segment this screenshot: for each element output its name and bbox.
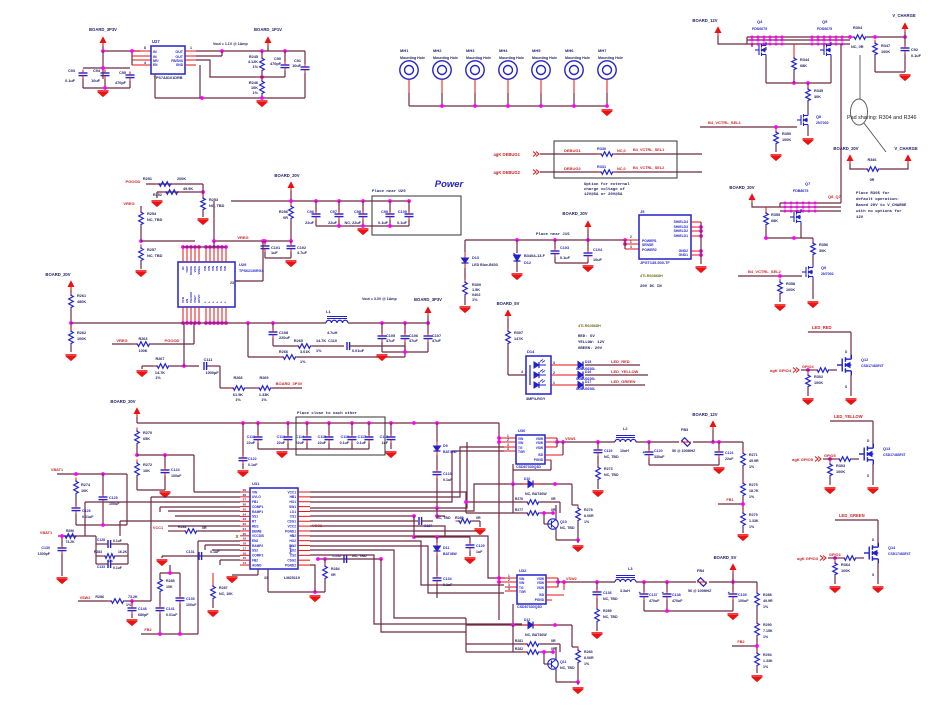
svg-text:4.7uF: 4.7uF	[297, 251, 308, 255]
svg-text:BOARD_5V: BOARD_5V	[714, 555, 737, 560]
svg-text:TPS62130RGX: TPS62130RGX	[239, 269, 264, 273]
svg-text:RAMP1: RAMP1	[252, 510, 263, 514]
svg-text:VSW1: VSW1	[565, 437, 576, 441]
svg-text:2: 2	[507, 438, 509, 442]
svg-text:26: 26	[243, 503, 247, 507]
svg-text:VIN: VIN	[518, 441, 524, 445]
svg-text:PGOOD: PGOOD	[165, 338, 180, 343]
svg-text:2N7002: 2N7002	[821, 272, 834, 276]
svg-text:VBAT1: VBAT1	[51, 468, 63, 472]
svg-text:0R: 0R	[331, 573, 336, 577]
svg-text:FB3: FB3	[681, 428, 688, 432]
svg-text:1%: 1%	[749, 525, 755, 529]
svg-text:10K: 10K	[81, 489, 88, 493]
svg-text:BAT46W: BAT46W	[443, 552, 457, 556]
svg-text:C103: C103	[560, 246, 569, 250]
svg-text:14: 14	[243, 561, 247, 565]
svg-text:480K: 480K	[77, 300, 86, 304]
svg-text:BOARD_3P3V: BOARD_3P3V	[89, 27, 117, 32]
svg-text:PGND: PGND	[534, 458, 544, 462]
svg-text:VREG: VREG	[197, 265, 201, 274]
svg-text:VSW: VSW	[537, 581, 544, 585]
svg-text:Q4: Q4	[757, 19, 763, 24]
svg-text:FB4: FB4	[697, 569, 705, 573]
svg-text:1uF: 1uF	[476, 550, 483, 554]
svg-text:4.12K: 4.12K	[248, 60, 258, 64]
svg-text:R246: R246	[249, 81, 258, 85]
svg-text:ROVP: ROVP	[197, 294, 201, 303]
svg-text:DEBUG2: DEBUG2	[564, 166, 581, 171]
svg-text:MH5: MH5	[532, 48, 541, 53]
svg-text:4: 4	[521, 370, 523, 374]
svg-text:12V: 12V	[856, 216, 864, 220]
svg-text:1%: 1%	[749, 465, 755, 469]
svg-text:C131: C131	[186, 550, 195, 554]
svg-text:NC, TBD: NC, TBD	[147, 218, 163, 222]
svg-text:BOARD_3P3V: BOARD_3P3V	[276, 381, 303, 386]
svg-text:470pF: 470pF	[115, 81, 127, 85]
svg-text:R261: R261	[77, 294, 86, 298]
svg-text:1%: 1%	[253, 91, 259, 95]
svg-text:C130: C130	[41, 546, 50, 550]
svg-text:1300pF: 1300pF	[38, 552, 51, 556]
svg-text:25: 25	[243, 507, 247, 511]
svg-text:0.1uF: 0.1uF	[340, 441, 350, 445]
svg-text:R286: R286	[95, 595, 104, 599]
svg-text:LED_GREEN: LED_GREEN	[839, 513, 865, 518]
svg-text:Q10: Q10	[560, 520, 567, 524]
svg-text:PGND: PGND	[535, 598, 545, 602]
svg-text:R279: R279	[749, 513, 758, 517]
svg-text:1: 1	[630, 240, 632, 244]
svg-text:C134: C134	[443, 577, 452, 581]
svg-text:RED: 5V: RED: 5V	[578, 335, 595, 339]
svg-text:BOARD_20V: BOARD_20V	[833, 146, 858, 151]
svg-text:IN: IN	[153, 50, 157, 54]
svg-text:Based 20V to V_CHARGE: Based 20V to V_CHARGE	[856, 203, 907, 208]
svg-text:R273: R273	[604, 467, 613, 471]
svg-text:1000pF: 1000pF	[205, 371, 219, 375]
svg-text:VCC2: VCC2	[312, 524, 322, 528]
svg-text:100K: 100K	[782, 138, 791, 142]
svg-text:C119: C119	[604, 449, 612, 453]
svg-text:R254: R254	[147, 212, 157, 216]
svg-text:BD: BD	[539, 593, 544, 597]
svg-text:1%: 1%	[763, 605, 769, 609]
svg-text:C117: C117	[358, 435, 366, 439]
svg-text:agK DEBUG2: agK DEBUG2	[493, 170, 520, 175]
svg-text:D14: D14	[527, 349, 535, 354]
svg-text:Option for external: Option for external	[584, 182, 630, 187]
svg-text:Q7: Q7	[805, 181, 811, 186]
svg-text:Q12: Q12	[861, 358, 868, 362]
svg-text:65K: 65K	[143, 437, 150, 441]
svg-text:VCC2: VCC2	[287, 524, 296, 528]
svg-text:Mounting Hole: Mounting Hole	[532, 56, 557, 60]
svg-text:0R: 0R	[202, 526, 207, 530]
svg-text:FB2: FB2	[737, 640, 744, 644]
svg-text:R262: R262	[77, 331, 86, 335]
svg-text:220uF: 220uF	[279, 336, 291, 340]
svg-text:47uF: 47uF	[386, 339, 396, 343]
svg-text:NC, BAT46W: NC, BAT46W	[525, 492, 547, 496]
svg-text:1%: 1%	[261, 398, 267, 402]
svg-text:R256: R256	[279, 210, 288, 214]
svg-text:VSW: VSW	[536, 446, 543, 450]
svg-text:1.33K: 1.33K	[763, 659, 773, 663]
svg-text:CDBU0230L: CDBU0230L	[576, 387, 595, 391]
svg-text:R307: R307	[514, 331, 523, 335]
svg-text:R257: R257	[147, 248, 156, 252]
svg-text:FB2: FB2	[144, 628, 151, 632]
svg-text:YELLOW: 12V: YELLOW: 12V	[578, 341, 605, 345]
svg-text:R345: R345	[814, 89, 823, 93]
svg-text:24: 24	[243, 512, 247, 516]
svg-text:C126: C126	[82, 509, 91, 513]
svg-text:C120: C120	[654, 449, 663, 453]
svg-text:C101: C101	[271, 246, 280, 250]
svg-text:NC,0: NC,0	[617, 149, 626, 153]
svg-text:CS1: CS1	[290, 515, 296, 519]
svg-text:C141: C141	[166, 607, 175, 611]
svg-text:D15: D15	[585, 360, 591, 364]
svg-text:LED_RED: LED_RED	[611, 359, 630, 364]
svg-text:Mounting Hole: Mounting Hole	[598, 56, 623, 60]
svg-text:200K: 200K	[177, 177, 186, 181]
svg-text:VREG: VREG	[237, 235, 248, 240]
svg-text:10K: 10K	[251, 86, 258, 90]
svg-text:LED_GREEN: LED_GREEN	[611, 379, 636, 384]
svg-text:1%: 1%	[126, 603, 132, 607]
svg-text:47uF: 47uF	[409, 339, 419, 343]
svg-text:147K: 147K	[514, 337, 523, 341]
svg-text:C121: C121	[725, 451, 734, 455]
svg-text:C107: C107	[432, 334, 441, 338]
svg-text:VIN: VIN	[223, 266, 227, 271]
svg-text:10uF: 10uF	[292, 64, 302, 68]
svg-text:NC, TBD: NC, TBD	[604, 473, 619, 477]
svg-text:0.1uF: 0.1uF	[113, 566, 122, 570]
svg-text:R300: R300	[472, 283, 481, 287]
svg-text:3: 3	[553, 361, 555, 365]
svg-text:JPGT135-500-TF: JPGT135-500-TF	[640, 261, 670, 265]
svg-text:agK GPIO5: agK GPIO5	[792, 457, 814, 462]
svg-text:R356: R356	[819, 243, 828, 247]
svg-text:agK GPIO3: agK GPIO3	[797, 556, 819, 561]
svg-text:HB2: HB2	[290, 534, 297, 538]
svg-text:J5: J5	[640, 209, 645, 214]
svg-text:C96: C96	[307, 210, 314, 214]
svg-text:BOARD_5V: BOARD_5V	[497, 301, 520, 306]
svg-text:C92: C92	[911, 48, 918, 52]
svg-text:49.9R: 49.9R	[763, 599, 773, 603]
svg-text:U32: U32	[519, 568, 527, 573]
svg-text:1%: 1%	[235, 398, 241, 402]
svg-text:PGOOD: PGOOD	[126, 179, 141, 184]
svg-text:PwPd: PwPd	[289, 545, 293, 554]
svg-text:S: S	[867, 474, 869, 478]
svg-text:20V DC IN: 20V DC IN	[640, 285, 662, 289]
svg-text:TGR: TGR	[519, 590, 526, 594]
svg-text:10K: 10K	[166, 585, 173, 589]
svg-text:0.1uF: 0.1uF	[560, 256, 571, 260]
svg-text:NC, BAT46W: NC, BAT46W	[525, 633, 547, 637]
svg-text:100K: 100K	[77, 337, 86, 341]
svg-text:D17: D17	[585, 380, 591, 384]
svg-text:R364: R364	[841, 563, 851, 567]
svg-text:22: 22	[243, 522, 247, 526]
svg-text:1uF: 1uF	[271, 251, 278, 255]
svg-text:VSW: VSW	[536, 441, 543, 445]
svg-text:C106: C106	[409, 334, 418, 338]
svg-text:Power: Power	[435, 179, 465, 190]
svg-text:HB1: HB1	[290, 495, 297, 499]
svg-text:VREG: VREG	[123, 201, 134, 206]
svg-text:1: 1	[190, 46, 192, 50]
svg-text:17: 17	[243, 546, 247, 550]
svg-text:20: 20	[243, 532, 247, 536]
svg-text:Mounting Hole: Mounting Hole	[565, 56, 590, 60]
svg-text:1.33K: 1.33K	[749, 519, 759, 523]
svg-text:CSG1: CSG1	[287, 520, 296, 524]
svg-text:VCC1: VCC1	[287, 490, 296, 494]
svg-text:56 @ 100MHZ: 56 @ 100MHZ	[672, 449, 696, 453]
svg-text:C90: C90	[274, 57, 281, 61]
svg-text:R281: R281	[515, 639, 523, 643]
svg-text:NC, TBD: NC, TBD	[603, 597, 618, 601]
svg-text:73.2K: 73.2K	[128, 595, 138, 599]
svg-text:COMP1: COMP1	[252, 505, 264, 509]
svg-text:L: L	[223, 301, 227, 303]
svg-text:BAT46W: BAT46W	[443, 450, 457, 454]
svg-text:SHIELD1: SHIELD1	[674, 234, 688, 238]
svg-text:C132: C132	[332, 554, 341, 558]
svg-text:C136: C136	[603, 591, 612, 595]
svg-text:R344: R344	[800, 58, 810, 62]
svg-text:1: 1	[553, 381, 555, 385]
svg-text:GREEN: 20V: GREEN: 20V	[578, 347, 603, 351]
svg-text:Q13: Q13	[883, 447, 890, 451]
svg-text:0.1uF: 0.1uF	[248, 463, 258, 467]
svg-text:CSD17483F4T: CSD17483F4T	[888, 552, 912, 556]
svg-text:AGND: AGND	[252, 563, 262, 567]
svg-text:21: 21	[243, 527, 247, 531]
svg-text:Place R305 for: Place R305 for	[856, 191, 890, 196]
svg-text:NC, TBD: NC, TBD	[604, 455, 619, 459]
svg-text:68K: 68K	[800, 64, 807, 68]
svg-text:C123: C123	[443, 472, 452, 476]
svg-text:100K: 100K	[841, 569, 850, 573]
svg-text:4: 4	[144, 61, 146, 65]
svg-text:UVLO: UVLO	[252, 495, 261, 499]
svg-text:3.3uH: 3.3uH	[620, 589, 630, 593]
svg-text:4: 4	[508, 587, 510, 591]
svg-text:U30: U30	[518, 428, 526, 433]
svg-text:C104: C104	[593, 248, 603, 252]
svg-text:23: 23	[230, 281, 234, 285]
svg-text:C114: C114	[296, 435, 304, 439]
svg-text:2: 2	[508, 578, 510, 582]
svg-text:NC, 10K: NC, 10K	[219, 592, 233, 596]
svg-text:16: 16	[243, 551, 247, 555]
svg-text:R358: R358	[786, 282, 795, 286]
svg-text:100uF: 100uF	[738, 599, 749, 603]
svg-text:C128: C128	[97, 538, 105, 542]
svg-text:Mounting Hole: Mounting Hole	[466, 56, 491, 60]
svg-text:0R: 0R	[283, 216, 288, 220]
svg-text:SS1: SS1	[252, 515, 258, 519]
svg-text:R294: R294	[763, 653, 772, 657]
svg-text:SHIELD4: SHIELD4	[674, 220, 688, 224]
svg-text:NC, TBD: NC, TBD	[560, 666, 575, 670]
svg-text:1%: 1%	[316, 349, 322, 353]
svg-text:100K: 100K	[814, 381, 823, 385]
svg-text:470uF: 470uF	[672, 599, 683, 603]
svg-text:B4_VCTRL_SEL1: B4_VCTRL_SEL1	[633, 148, 664, 152]
svg-text:Place near U29: Place near U29	[372, 189, 406, 194]
svg-text:3MP4-RGY: 3MP4-RGY	[526, 397, 546, 401]
svg-text:C138: C138	[672, 593, 681, 597]
svg-text:R278: R278	[584, 508, 593, 512]
svg-text:BOARD_20V: BOARD_20V	[110, 399, 135, 404]
svg-text:PGND2: PGND2	[285, 563, 296, 567]
svg-text:Mounting Hole: Mounting Hole	[433, 56, 458, 60]
svg-text:MH3: MH3	[466, 48, 475, 53]
svg-text:22uF: 22uF	[725, 457, 734, 461]
svg-text:2N7002: 2N7002	[816, 121, 829, 125]
svg-text:C100: C100	[398, 210, 407, 214]
svg-text:14.7K: 14.7K	[155, 371, 165, 375]
svg-text:1%: 1%	[584, 520, 590, 524]
svg-text:CSD17483F4T: CSD17483F4T	[883, 453, 907, 457]
svg-text:1%: 1%	[472, 298, 478, 302]
svg-text:R290: R290	[763, 623, 772, 627]
svg-text:330uF: 330uF	[654, 455, 665, 459]
svg-text:R277: R277	[515, 508, 523, 512]
svg-text:LED Blue-B603: LED Blue-B603	[472, 263, 498, 267]
svg-text:B4_VCTRL_SEL2: B4_VCTRL_SEL2	[748, 269, 782, 274]
svg-text:22uF: 22uF	[305, 221, 315, 225]
svg-text:16.2K: 16.2K	[118, 550, 128, 554]
svg-text:CSD17483F4T: CSD17483F4T	[861, 364, 885, 368]
svg-text:Pad sharing: R304 and R346: Pad sharing: R304 and R346	[847, 115, 917, 121]
svg-text:VSW: VSW	[537, 586, 544, 590]
svg-text:4TLR60868H: 4TLR60868H	[578, 324, 601, 328]
svg-text:U27: U27	[152, 39, 160, 44]
svg-text:R263: R263	[138, 337, 147, 341]
svg-text:8.06R: 8.06R	[584, 656, 594, 660]
svg-text:R266: R266	[279, 350, 288, 354]
svg-text:15: 15	[243, 556, 247, 560]
svg-text:DEMB: DEMB	[252, 529, 262, 533]
svg-text:BOARD_20V: BOARD_20V	[274, 173, 299, 178]
svg-text:VSW2: VSW2	[566, 577, 577, 581]
svg-text:NC, TBD: NC, TBD	[209, 204, 225, 208]
svg-text:VBAT1: VBAT1	[40, 531, 52, 535]
svg-text:R275: R275	[749, 483, 758, 487]
svg-text:2: 2	[553, 371, 555, 375]
svg-text:SW1: SW1	[289, 505, 296, 509]
svg-text:FB2: FB2	[252, 558, 258, 562]
svg-text:10K: 10K	[143, 469, 150, 473]
svg-text:BOARD_12V: BOARD_12V	[692, 18, 717, 23]
svg-text:TPS7A8101DRB: TPS7A8101DRB	[154, 76, 183, 80]
svg-text:VCC1: VCC1	[153, 526, 163, 530]
svg-text:Place close to each other: Place close to each other	[297, 411, 358, 416]
svg-text:R251: R251	[143, 177, 152, 181]
svg-text:FB1: FB1	[252, 500, 258, 504]
svg-text:18.7K: 18.7K	[749, 489, 759, 493]
svg-text:TGR: TGR	[518, 450, 525, 454]
svg-text:49.9K: 49.9K	[183, 187, 193, 191]
svg-text:29: 29	[243, 488, 247, 492]
svg-text:0.01uF: 0.01uF	[82, 515, 94, 519]
svg-text:49.9R: 49.9R	[749, 459, 759, 463]
svg-text:22uF: 22uF	[296, 441, 305, 445]
svg-text:0R: 0R	[476, 516, 481, 520]
svg-text:10uF: 10uF	[593, 258, 603, 262]
svg-text:R283: R283	[584, 650, 593, 654]
svg-text:S: S	[872, 573, 874, 577]
svg-text:Q14: Q14	[888, 546, 896, 550]
svg-text:B340A-13-F: B340A-13-F	[524, 254, 546, 258]
svg-text:C94: C94	[93, 69, 101, 73]
svg-text:4.7uH: 4.7uH	[327, 331, 338, 335]
svg-text:27: 27	[243, 498, 247, 502]
svg-text:D10: D10	[524, 477, 530, 481]
svg-text:0R: 0R	[870, 178, 875, 182]
svg-text:CSD87330Q3D: CSD87330Q3D	[517, 605, 542, 609]
svg-text:R282: R282	[515, 647, 523, 651]
svg-text:22uF: 22uF	[247, 441, 256, 445]
svg-text:C124: C124	[171, 468, 180, 472]
svg-text:VCCDIS: VCCDIS	[252, 534, 264, 538]
svg-text:charge voltage of: charge voltage of	[584, 187, 625, 192]
svg-text:BOARD_20V: BOARD_20V	[729, 185, 754, 190]
svg-text:default operation:: default operation:	[856, 197, 899, 202]
svg-text:with no options for: with no options for	[856, 209, 902, 214]
svg-text:R347: R347	[881, 44, 890, 48]
svg-text:L1: L1	[326, 309, 331, 314]
svg-text:LED_YELLOW: LED_YELLOW	[611, 369, 639, 374]
svg-text:0.01uF: 0.01uF	[352, 349, 365, 353]
svg-text:C122: C122	[248, 457, 257, 461]
svg-text:1%: 1%	[300, 360, 306, 364]
svg-text:3: 3	[630, 245, 632, 249]
svg-text:Mounting Hole: Mounting Hole	[499, 56, 524, 60]
svg-text:1%: 1%	[584, 662, 590, 666]
svg-text:R268: R268	[233, 376, 242, 380]
svg-text:L3: L3	[628, 567, 632, 571]
svg-text:R271: R271	[749, 453, 758, 457]
svg-text:C110: C110	[328, 339, 337, 343]
svg-text:COMP2: COMP2	[252, 554, 264, 558]
svg-text:D9: D9	[443, 444, 448, 448]
svg-text:SS2: SS2	[252, 549, 258, 553]
svg-text:RT: RT	[252, 520, 256, 524]
svg-text:0.1uF: 0.1uF	[65, 79, 76, 83]
svg-text:Q5: Q5	[822, 19, 828, 24]
svg-text:POWER2: POWER2	[642, 248, 657, 252]
svg-text:FDS6675: FDS6675	[752, 27, 767, 31]
svg-text:NC,0: NC,0	[617, 167, 626, 171]
svg-text:GND: GND	[176, 63, 184, 67]
svg-text:0.1uF: 0.1uF	[357, 441, 367, 445]
svg-text:R272: R272	[143, 463, 152, 467]
svg-text:VIN: VIN	[252, 490, 258, 494]
svg-text:SENSE: SENSE	[642, 243, 654, 247]
svg-text:C111: C111	[204, 358, 213, 362]
